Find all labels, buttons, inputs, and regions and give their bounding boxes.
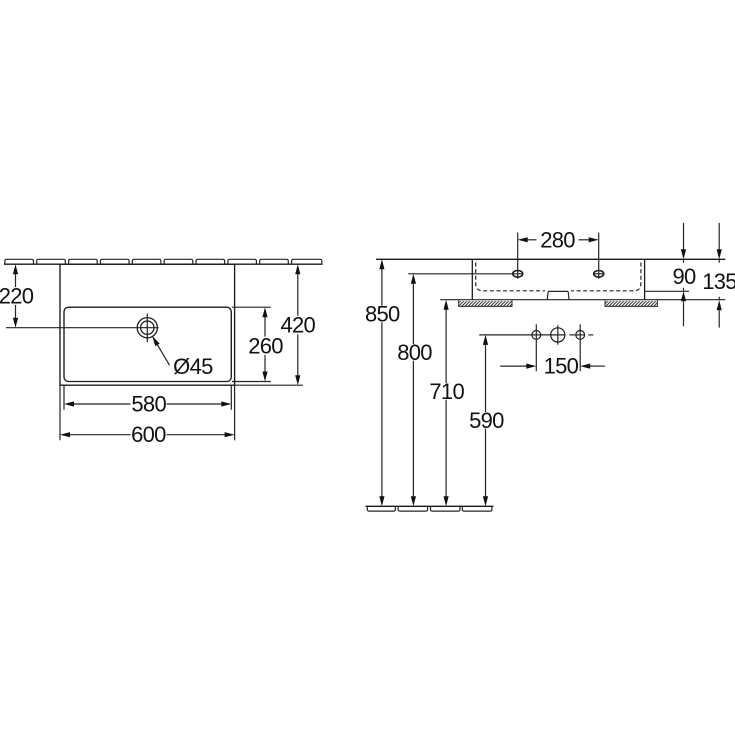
drain boss bbox=[547, 291, 569, 299]
basin inner bowl (plan view) bbox=[64, 307, 231, 381]
svg-text:220: 220 bbox=[0, 284, 34, 309]
tap hole centerline vertical bbox=[146, 314, 148, 343]
tap hole 2 (elevation) bbox=[598, 233, 600, 279]
wall section bar (plan view) bbox=[5, 259, 322, 264]
90 reference line bbox=[645, 290, 689, 292]
svg-text:600: 600 bbox=[131, 422, 166, 447]
svg-text:280: 280 bbox=[540, 227, 575, 252]
floor tile segments bbox=[367, 506, 492, 511]
tap hole circles bbox=[137, 318, 157, 338]
dimension 600 bbox=[60, 385, 235, 440]
basin left edge bbox=[471, 259, 473, 299]
dimension 590 bbox=[485, 345, 487, 497]
wall mounting line bbox=[440, 299, 725, 301]
extension line through circle 2 bbox=[579, 324, 581, 371]
svg-text:580: 580 bbox=[131, 392, 166, 417]
extension line for 420 bottom bbox=[235, 384, 303, 386]
basin top edge line bbox=[376, 258, 725, 260]
svg-text:850: 850 bbox=[365, 302, 400, 327]
drain fitting small circle 2 bbox=[576, 331, 585, 340]
svg-text:90: 90 bbox=[672, 264, 696, 289]
wall face line (plan view) bbox=[4, 263, 323, 265]
dimension 135 bbox=[718, 223, 720, 328]
dimension 710 bbox=[445, 309, 447, 496]
800 reference line to tap hole bbox=[408, 273, 523, 275]
dimension 260 bbox=[232, 307, 271, 381]
dimension 90 bbox=[683, 223, 685, 326]
svg-text:590: 590 bbox=[469, 408, 504, 433]
drain axis line bbox=[479, 334, 565, 336]
drain fitting big circle bbox=[551, 328, 565, 342]
svg-text:Ø45: Ø45 bbox=[173, 354, 213, 379]
tap hole centerline horizontal bbox=[6, 327, 159, 329]
leader arrowhead bbox=[152, 336, 159, 346]
dimension 580 bbox=[64, 385, 231, 410]
drain fitting small circle 1 bbox=[532, 331, 541, 340]
dimension 220 bbox=[15, 274, 17, 318]
leader line Ø45 bbox=[152, 336, 169, 365]
extension line through circle 1 bbox=[535, 324, 537, 371]
hidden bowl outline dashed right bbox=[571, 263, 641, 291]
dimension 850 bbox=[381, 269, 383, 497]
tap hole 1 (elevation) bbox=[517, 233, 519, 279]
right mounting bracket (hatched) bbox=[606, 301, 657, 306]
hidden bowl outline dashed left bbox=[476, 263, 545, 291]
floor line bbox=[366, 505, 494, 507]
svg-text:420: 420 bbox=[280, 313, 315, 338]
svg-text:135: 135 bbox=[702, 269, 735, 294]
dimension 420 bbox=[297, 274, 299, 376]
basin right edge bbox=[644, 259, 646, 299]
basin outer rim (plan view) bbox=[60, 264, 235, 385]
svg-text:710: 710 bbox=[429, 379, 464, 404]
svg-text:800: 800 bbox=[397, 340, 432, 365]
left mounting bracket (hatched) bbox=[459, 301, 511, 306]
svg-text:260: 260 bbox=[248, 333, 283, 358]
dimension 150 bbox=[500, 365, 605, 367]
dimension 280 bbox=[528, 239, 590, 241]
dimension 800 bbox=[412, 284, 414, 497]
svg-text:150: 150 bbox=[544, 353, 579, 378]
